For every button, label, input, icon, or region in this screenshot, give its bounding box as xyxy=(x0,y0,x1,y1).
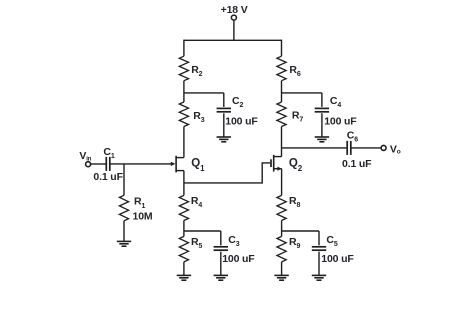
wire Vin to C1 xyxy=(91,163,106,165)
ground under R5 xyxy=(177,275,191,280)
resistor R6 xyxy=(277,56,301,80)
wire node to C3 xyxy=(184,230,221,232)
capacitor C1 xyxy=(93,146,123,183)
capacitor C2 xyxy=(217,93,259,137)
resistor R2 xyxy=(179,56,202,80)
ground under C2 xyxy=(217,137,231,142)
wire R3 to Q1 drain xyxy=(183,127,185,158)
wire R4 to R5 xyxy=(183,221,185,237)
resistor R1 xyxy=(119,195,152,222)
svg-text:100 uF: 100 uF xyxy=(321,253,354,265)
svg-text:100 uF: 100 uF xyxy=(225,116,258,128)
ground under C5 xyxy=(312,275,326,280)
wire Q1 source to Q2 gate xyxy=(184,163,270,183)
svg-text:R9: R9 xyxy=(289,236,300,250)
svg-text:100 uF: 100 uF xyxy=(324,116,357,128)
svg-text:R6: R6 xyxy=(289,64,300,78)
svg-text:0.1 uF: 0.1 uF xyxy=(342,158,372,170)
wire node B to C4 xyxy=(282,92,322,94)
wire rail to R6 xyxy=(281,40,283,57)
svg-text:R7: R7 xyxy=(292,110,303,124)
svg-text:Q2: Q2 xyxy=(289,157,303,173)
wire Q2 drain to C6 xyxy=(282,147,347,149)
svg-text:C2: C2 xyxy=(232,95,243,109)
input terminal Vin xyxy=(79,150,91,167)
resistor R3 xyxy=(179,102,204,127)
wire R1 to ground xyxy=(123,221,125,242)
wire C1 to Q1 gate xyxy=(110,163,171,165)
wire Q2 source down xyxy=(281,169,283,196)
svg-text:R5: R5 xyxy=(191,236,202,250)
wire R7 to Q2 drain xyxy=(281,127,283,157)
capacitor C3 xyxy=(214,231,256,275)
capacitor C4 xyxy=(315,93,358,137)
svg-text:C5: C5 xyxy=(326,234,337,248)
svg-text:100 uF: 100 uF xyxy=(222,253,255,265)
svg-text:Q1: Q1 xyxy=(191,157,205,173)
supply label +18 V xyxy=(221,4,248,16)
svg-text:+18 V: +18 V xyxy=(221,4,248,16)
wire R8 to R9 xyxy=(281,221,283,237)
supply terminal xyxy=(231,15,236,20)
resistor R8 xyxy=(277,195,300,221)
wire node A to C2 xyxy=(184,92,224,94)
wire C6 to Vo terminal xyxy=(351,147,381,149)
wire supply stub xyxy=(233,20,235,40)
ground under C3 xyxy=(214,275,228,280)
wire junction to R1 xyxy=(123,164,125,195)
svg-text:R4: R4 xyxy=(191,195,202,209)
transistor Q1 xyxy=(171,156,205,173)
wire R6 to R7 xyxy=(281,81,283,102)
wire Q1 source down xyxy=(183,171,185,196)
svg-text:R8: R8 xyxy=(289,195,300,209)
resistor R4 xyxy=(179,195,202,221)
wire rail to R2 xyxy=(183,40,185,57)
capacitor C5 xyxy=(312,231,355,275)
svg-text:Vin: Vin xyxy=(79,150,91,162)
resistor R5 xyxy=(179,236,202,262)
svg-text:0.1 uF: 0.1 uF xyxy=(93,171,123,183)
transistor Q2 xyxy=(271,155,303,173)
svg-text:10M: 10M xyxy=(133,210,153,222)
svg-text:R3: R3 xyxy=(193,110,204,124)
wire R9 to ground xyxy=(281,262,283,276)
wire top rail xyxy=(184,39,282,41)
wire node to C5 xyxy=(282,230,319,232)
ground under C4 xyxy=(315,137,329,142)
svg-text:C4: C4 xyxy=(330,95,341,109)
capacitor C6 xyxy=(342,129,372,170)
svg-text:R2: R2 xyxy=(191,64,202,78)
output terminal Vo xyxy=(381,143,401,155)
svg-text:C3: C3 xyxy=(228,234,239,248)
svg-text:Vo: Vo xyxy=(390,143,401,155)
ground under R1 xyxy=(117,241,131,246)
resistor R7 xyxy=(277,102,303,127)
ground under R9 xyxy=(274,275,288,280)
wire R5 to ground xyxy=(183,262,185,276)
svg-text:R1: R1 xyxy=(134,196,145,210)
svg-text:C6: C6 xyxy=(347,129,358,143)
resistor R9 xyxy=(277,236,300,262)
wire R2 to R3 xyxy=(183,81,185,102)
